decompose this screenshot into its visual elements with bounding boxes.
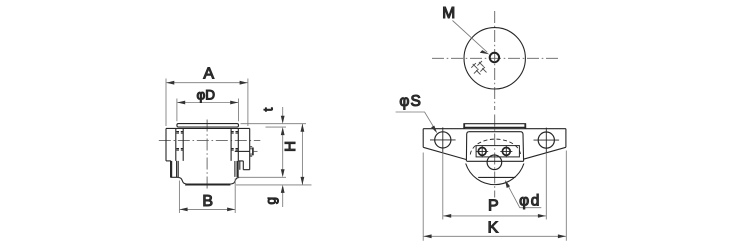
body top edge — [166, 127, 250, 129]
svg-text:P: P — [488, 197, 499, 214]
vertical centerline (side view axis) — [206, 120, 208, 191]
dimension B line with arrows — [180, 208, 236, 210]
leader phid: arrow diagonal and underline — [506, 182, 541, 207]
left bolt crosshair — [476, 145, 488, 157]
dimension A extension lines — [166, 79, 248, 127]
outer circle (plate/ball top view) — [464, 28, 525, 89]
housing bottom chord line — [478, 176, 515, 178]
right inner wall lines — [231, 128, 238, 161]
right leg (thick tab edge-on) — [237, 161, 239, 177]
hidden dashes upper-right column — [231, 132, 238, 134]
hidden dashes upper-left column — [176, 132, 183, 134]
right bolt circle (thick) — [502, 148, 510, 156]
left bolt circle (thick) — [478, 148, 486, 156]
left small bottom step line — [170, 176, 178, 178]
svg-text:A: A — [203, 66, 214, 83]
top plate (side view) — [177, 124, 239, 127]
center stem circle — [487, 155, 502, 170]
hidden dashes lower-right column — [231, 149, 238, 151]
svg-text:g: g — [263, 197, 278, 205]
dimension H line with arrows — [301, 124, 303, 185]
svg-text:φd: φd — [519, 193, 541, 210]
dimension K line with arrows — [424, 235, 566, 237]
svg-text:φD: φD — [197, 88, 216, 103]
bottom cup profile (S-curves + flat bottom) — [178, 177, 239, 184]
right leg thin companion line — [235, 161, 240, 177]
right step horizontal — [239, 161, 250, 170]
svg-text:H: H — [282, 141, 299, 152]
housing bottom arc (ball phi d) — [466, 164, 524, 185]
inner rectangle (retainer plate) — [476, 146, 519, 157]
hidden ball dashed ellipse — [470, 139, 520, 154]
dimension P line with arrows — [443, 215, 546, 217]
grease nipple on right face — [250, 147, 253, 156]
right wing outer edge — [565, 129, 567, 148]
body right outer edge — [249, 128, 251, 169]
svg-text:t: t — [261, 107, 276, 111]
plate left end (thick) — [463, 124, 465, 129]
svg-text:K: K — [488, 219, 499, 236]
dimension g (outside arrows) — [282, 187, 284, 207]
svg-text:M: M — [442, 5, 455, 22]
horizontal centerline (bolt axis, side view) — [159, 139, 260, 141]
top plate front: bottom line — [463, 126, 526, 128]
dimension t (outside arrows) — [282, 107, 284, 175]
dimension P extension lines — [443, 153, 547, 220]
housing shoulder line — [467, 160, 524, 162]
center hole M (thick) — [490, 53, 499, 62]
extension line: cup bottom (for g and H) — [236, 184, 312, 186]
extension line: plate bottom (for t) — [266, 126, 287, 128]
dimension phiD extension lines — [177, 99, 239, 122]
plate right end (thick) — [524, 124, 526, 129]
wing top edge line — [423, 128, 566, 130]
nipple centerline stub — [254, 150, 259, 152]
top plate front: top line — [463, 123, 526, 125]
right wing bottom edge — [523, 147, 566, 159]
leader M arrow — [453, 21, 488, 53]
cup flat bottom line — [185, 184, 230, 186]
body right side front — [521, 132, 524, 162]
dimension K extension lines — [423, 151, 566, 241]
left leg thin companion line — [177, 161, 179, 177]
dimension phiD line with arrows — [177, 102, 238, 104]
svg-text:φS: φS — [399, 93, 421, 110]
svg-text:B: B — [202, 193, 213, 210]
left wing hole phiS — [435, 132, 451, 148]
horizontal centerline top view — [432, 57, 558, 59]
left wing outer edge — [422, 129, 424, 148]
grease passage line to nipple — [235, 150, 250, 152]
vertical centerline front view — [494, 115, 496, 198]
body left outer edge — [165, 128, 167, 161]
hidden dashes lower-left column — [176, 149, 183, 151]
body top edge front — [469, 131, 521, 133]
right wing hole crosshair — [534, 128, 560, 153]
left step horizontal — [166, 160, 171, 162]
dimension A line with arrows — [166, 82, 247, 84]
left wing bottom edge — [423, 147, 466, 159]
extension line: body bottom (for g) — [239, 176, 286, 178]
right wing hole — [538, 132, 554, 148]
left wing hole crosshair — [430, 127, 456, 152]
body left side front — [466, 132, 468, 162]
extension line: plate top (for t and H) — [241, 123, 307, 125]
dimension B extension lines — [179, 179, 235, 214]
leader phiS: underline and diagonal with arrow — [396, 112, 436, 131]
vertical centerline top view — [494, 11, 496, 110]
crosshatch mark patch — [471, 61, 486, 75]
left leg (thick tab edge-on) — [170, 161, 172, 177]
left inner wall lines — [176, 128, 183, 161]
right bolt crosshair — [500, 145, 512, 157]
